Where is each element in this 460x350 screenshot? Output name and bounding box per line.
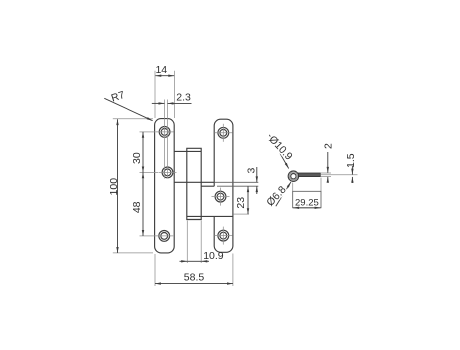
- svg-text:2.3: 2.3: [176, 92, 191, 104]
- svg-text:2: 2: [322, 143, 334, 149]
- svg-text:10.9: 10.9: [203, 250, 224, 262]
- svg-text:30: 30: [131, 152, 143, 164]
- svg-text:23: 23: [235, 197, 247, 209]
- svg-text:14: 14: [155, 64, 167, 76]
- svg-text:Ø10.9: Ø10.9: [266, 133, 294, 162]
- svg-text:1.5: 1.5: [345, 153, 357, 168]
- svg-text:Ø6.8: Ø6.8: [264, 184, 288, 209]
- svg-text:29.25: 29.25: [295, 198, 319, 209]
- svg-text:100: 100: [108, 178, 120, 196]
- svg-text:3: 3: [246, 168, 258, 174]
- svg-text:R7: R7: [110, 89, 127, 105]
- svg-text:58.5: 58.5: [184, 271, 205, 283]
- svg-text:48: 48: [131, 201, 143, 213]
